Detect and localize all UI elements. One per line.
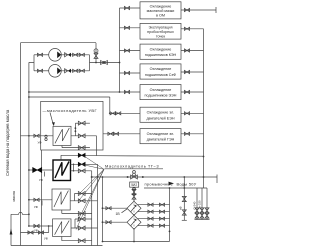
valve drop4 a <box>205 208 209 213</box>
node busB hx2 <box>28 169 30 171</box>
node HX1 tie a <box>75 127 77 129</box>
svg-text:УФ: УФ <box>39 178 44 182</box>
wire drop4 <box>206 188 208 220</box>
wire HX1 row2 <box>71 135 97 137</box>
wire B6 right <box>181 112 204 114</box>
valve B7 right <box>184 132 189 135</box>
box B2 <box>140 23 181 39</box>
svg-text:Охлаждение: Охлаждение <box>150 67 172 71</box>
node HX2 tie top <box>73 164 75 166</box>
valve HX4 row3 <box>78 239 85 243</box>
svg-text:Эч-330: Эч-330 <box>198 200 202 210</box>
tie HX4 <box>74 219 76 228</box>
wire HX4 second left <box>21 232 49 234</box>
check valve pump2 <box>65 69 68 73</box>
arrow inlet <box>10 229 13 235</box>
svg-text:подшипников ЭЭН: подшипников ЭЭН <box>145 94 177 98</box>
wire B5 right <box>181 91 204 93</box>
tie HX3 <box>74 194 76 201</box>
valve drop1 bottom <box>182 210 186 215</box>
valve B6 b <box>116 112 121 115</box>
wire diamond bus <box>102 177 104 242</box>
valve pump2 discharge b <box>79 69 84 72</box>
svg-text:масла: масла <box>12 191 16 201</box>
node busB hx4 <box>28 225 30 227</box>
wire branch B3 <box>120 50 141 52</box>
valve B1 left <box>124 6 129 9</box>
wire collector C3 <box>97 164 99 245</box>
wire HX2 row2 <box>71 163 98 165</box>
wire collector C1 <box>91 171 93 246</box>
svg-text:пробоотборных: пробоотборных <box>147 30 174 34</box>
wire promyv line <box>144 187 207 189</box>
wire bus B <box>29 55 34 226</box>
valve drop1 top <box>182 196 186 201</box>
valve D1 feed <box>132 194 136 199</box>
wire branch B7 <box>103 133 140 135</box>
wire HX4 row2 <box>71 227 98 229</box>
svg-text:Охлаждение: Охлаждение <box>150 47 172 51</box>
filter diamond D1 <box>127 201 141 215</box>
end tick B1 <box>215 7 217 13</box>
valve D1 west <box>106 207 111 210</box>
box B3 <box>140 44 181 59</box>
wire HX2 row3 <box>71 170 92 172</box>
valve HX2 left bold <box>33 168 42 173</box>
node relief <box>95 62 97 64</box>
filter diamond D2 <box>127 215 141 229</box>
heat exchanger HX4 <box>53 219 71 237</box>
wire 5I2 down <box>133 187 135 201</box>
leader TG3 2 <box>80 164 104 169</box>
end main line <box>216 175 218 184</box>
wire HX out to bus3 <box>97 155 204 158</box>
wire riser B67 <box>109 97 111 113</box>
wire HX1 row3 <box>62 146 90 148</box>
valve HX3 left <box>34 198 39 201</box>
wire D1 east upper <box>138 204 170 206</box>
wire bottom link <box>103 241 170 243</box>
wire HX4 row3 <box>62 237 92 241</box>
valve HX1 left <box>34 134 39 137</box>
valve HX4 row1 <box>78 217 85 221</box>
orifice HX1 <box>45 135 47 137</box>
valve B6 a <box>110 112 115 115</box>
node bl2 <box>133 241 135 243</box>
svg-text:5И2: 5И2 <box>131 183 137 187</box>
leader TG3 1 <box>84 156 104 169</box>
node bus1 feed <box>119 62 121 64</box>
node dbus d1 <box>102 207 104 209</box>
node main v1 <box>127 176 129 178</box>
node HX4 feed tee <box>48 225 50 227</box>
wire D1 west <box>103 207 128 209</box>
wire bus3 <box>203 29 205 188</box>
svg-text:Охлаждение: Охлаждение <box>150 88 172 92</box>
valve pump1 discharge a <box>73 53 78 56</box>
box 5I2 <box>130 182 139 187</box>
valve B7 b <box>113 132 118 135</box>
wire B7 right <box>181 133 204 135</box>
wire bus1 <box>119 8 121 92</box>
node main dbus <box>102 176 104 178</box>
valve HX2 row1 <box>78 153 85 157</box>
svg-text:—маслоохладитель УВГ: —маслоохладитель УВГ <box>43 108 98 113</box>
valve B3 left <box>124 49 129 52</box>
svg-text:О-540: О-540 <box>193 201 197 209</box>
node main c2 <box>97 176 99 178</box>
wire HX3 row1 <box>75 193 92 195</box>
wire pump1 suction <box>34 54 49 56</box>
wire HX1 row1 <box>75 122 90 124</box>
valve B6 right <box>184 112 189 115</box>
wire inlet L1 <box>10 214 12 245</box>
wire branch B6 <box>110 112 140 114</box>
svg-text:масляной мазки: масляной мазки <box>147 9 175 13</box>
valve HX4 second a <box>28 231 33 234</box>
valve B5 left <box>124 90 129 93</box>
box B7 <box>140 129 181 144</box>
svg-text:УФ: УФ <box>44 237 49 241</box>
node inlet busB <box>28 213 30 215</box>
wire drop3 <box>201 188 203 220</box>
wire D2 east lower <box>138 225 170 227</box>
wire bottom bus <box>11 245 103 247</box>
valve HX3 row3 <box>78 212 85 216</box>
wire B2 right <box>181 28 204 30</box>
node main v2 <box>142 176 144 178</box>
valve B5 right <box>184 90 189 93</box>
svg-text:вФ: вФ <box>179 206 183 210</box>
valve drop3 a <box>200 208 204 213</box>
drain T drop2 <box>195 219 200 221</box>
tie HX2 <box>73 164 75 171</box>
valve D2 el b <box>159 224 164 227</box>
valve D2 el a <box>148 224 153 227</box>
svg-text:Эксплуатация: Эксплуатация <box>149 25 173 29</box>
node busB hxline <box>28 96 30 98</box>
relief valve <box>94 49 98 53</box>
leader TG3 5 <box>77 169 104 222</box>
svg-text:Воды 50У: Воды 50У <box>177 181 197 186</box>
wire drop1 <box>183 177 185 220</box>
valve pump1 suction <box>37 53 42 56</box>
drain T drop1 <box>182 219 187 221</box>
wire supply continuation <box>41 150 43 246</box>
node HX2 tie bottom <box>73 170 75 172</box>
svg-text:Сетевая вода на подогрев масла: Сетевая вода на подогрев масла <box>5 109 10 176</box>
valve HX4 second b <box>38 231 43 234</box>
valve B4 left <box>124 71 129 74</box>
node promyv collector <box>169 187 171 189</box>
valve B2 left <box>124 26 129 29</box>
wire pump merge <box>90 55 120 71</box>
svg-text:УФ: УФ <box>38 141 43 145</box>
wire HX1 left <box>21 135 54 137</box>
wire HX3 row3 <box>62 210 92 214</box>
box B6 <box>140 107 181 122</box>
valve main discharge <box>101 61 108 65</box>
valve drop4 b <box>205 213 209 218</box>
leader 1V <box>122 209 128 213</box>
valve HX1 row2 <box>78 134 85 138</box>
valve pump2 suction <box>37 69 42 72</box>
valve B4 right <box>184 70 189 73</box>
valve HX4 row2 <box>78 226 85 230</box>
svg-text:УФ: УФ <box>34 229 39 233</box>
valve drop2 a <box>195 208 199 213</box>
wire right collector <box>169 188 171 242</box>
valve D2 eu a <box>148 217 153 220</box>
valve HX2 row2 <box>78 162 85 166</box>
valve B7 a <box>108 132 113 135</box>
wire pump2 suction <box>34 70 49 72</box>
wire HX4 row1 <box>75 218 92 220</box>
wire inlet jump <box>11 212 29 214</box>
box B5 <box>140 85 181 100</box>
wire hx collector line <box>29 96 110 98</box>
wire HX3 left <box>29 199 52 201</box>
heat exchanger HX2 bold <box>53 160 71 181</box>
box B1 <box>140 2 181 19</box>
wire D2 west <box>103 221 128 223</box>
wire left rail <box>21 43 97 246</box>
wire D1 east lower <box>138 211 170 213</box>
valve HX4 left <box>34 224 39 227</box>
svg-text:двигателей ЕЭН: двигателей ЕЭН <box>146 116 174 120</box>
heat exchanger HX3 <box>52 189 70 210</box>
node busB b5line <box>28 91 30 93</box>
wire collector C2 <box>96 136 98 156</box>
valve drop2 b <box>195 213 199 218</box>
valve pump1 discharge b <box>79 53 84 56</box>
valve HX3 row1 <box>78 192 85 196</box>
node dbus d2 <box>102 221 104 223</box>
wire D2 east upper <box>138 218 170 220</box>
valve D1 el b <box>159 210 164 213</box>
leader TG3 3 <box>79 169 104 194</box>
valve drop3 b <box>200 213 204 218</box>
wire pump2 discharge <box>61 70 89 72</box>
valve HX1 row3 <box>78 146 85 150</box>
box B4 <box>140 64 181 79</box>
box UVG <box>41 101 103 150</box>
wire B4 right <box>181 71 204 73</box>
valve HX2 row3 <box>78 169 85 173</box>
valve pump2 discharge a <box>73 69 78 72</box>
tie HX1 <box>74 123 76 136</box>
wire HX4 tee down <box>48 226 50 233</box>
valve B1 right <box>184 8 189 11</box>
valve D2 eu b <box>159 217 164 220</box>
svg-text:подшипников СэФ: подшипников СэФ <box>145 73 176 77</box>
axis dashed <box>133 200 135 231</box>
node busB hx1 <box>28 135 30 137</box>
svg-text:в ОМ: в ОМ <box>156 14 165 18</box>
valve D1 eu b <box>159 203 164 206</box>
wire B1 right <box>181 9 216 11</box>
node riser b6 <box>109 112 111 114</box>
drain T drop3 <box>200 219 205 221</box>
valve D2 west <box>106 221 111 224</box>
valve D1 el a <box>148 210 153 213</box>
svg-text:двигателей ГЭН: двигателей ГЭН <box>147 138 175 142</box>
node main c1 <box>91 176 93 178</box>
wire pump1 discharge <box>61 54 89 56</box>
wire HX2 left <box>29 169 53 171</box>
node b5 bus1 <box>119 91 121 93</box>
valve D1 eu a <box>148 203 153 206</box>
node bus3 main <box>203 176 205 178</box>
svg-text:Охлаждение: Охлаждение <box>150 4 172 8</box>
svg-text:подшипников КЭН: подшипников КЭН <box>145 53 177 57</box>
wire branch B1 <box>120 7 141 9</box>
pump P1 <box>49 49 62 62</box>
wire B5 feed <box>29 91 140 93</box>
drain T drop4 <box>205 219 210 221</box>
node rcol <box>169 231 171 233</box>
wire main line <box>92 176 217 178</box>
svg-text:Маслоохладитель ТГ−3: Маслоохладитель ТГ−3 <box>105 164 159 169</box>
svg-text:Охлаждение эл.: Охлаждение эл. <box>147 111 175 115</box>
node bus3 <box>203 156 205 158</box>
wire HX4 left <box>29 225 53 227</box>
valve main actuated <box>131 175 138 179</box>
node HX1 tie b <box>75 130 77 132</box>
svg-text:Охлаждение эл.: Охлаждение эл. <box>147 132 175 136</box>
wire D2 down <box>133 229 135 241</box>
check valve pump1 <box>65 53 68 57</box>
leader UVG <box>50 113 53 125</box>
node bl1 <box>102 241 104 243</box>
valve B2 right <box>184 27 189 30</box>
wire branch B4 <box>120 72 141 74</box>
leader TG3 6 <box>76 169 104 229</box>
relief branch <box>95 43 97 63</box>
svg-text:точек: точек <box>156 35 166 39</box>
pump P2 <box>49 65 62 78</box>
svg-text:УФ: УФ <box>34 205 39 209</box>
wire HX3 row2 <box>70 200 97 202</box>
wire drop2 <box>196 188 198 220</box>
wire HX2 row1 <box>61 155 97 160</box>
valve B3 right <box>184 49 189 52</box>
valve lower actuated <box>133 188 136 191</box>
wire branch B2 <box>120 27 141 29</box>
heat exchanger HX1 <box>53 126 71 145</box>
node busB hx3 <box>28 199 30 201</box>
wire B3 right <box>181 50 204 52</box>
valve HX1 row1 <box>78 121 85 125</box>
valve HX3 row2 <box>78 199 85 203</box>
svg-text:1В: 1В <box>116 212 121 216</box>
leader TG3 4 <box>78 169 104 201</box>
